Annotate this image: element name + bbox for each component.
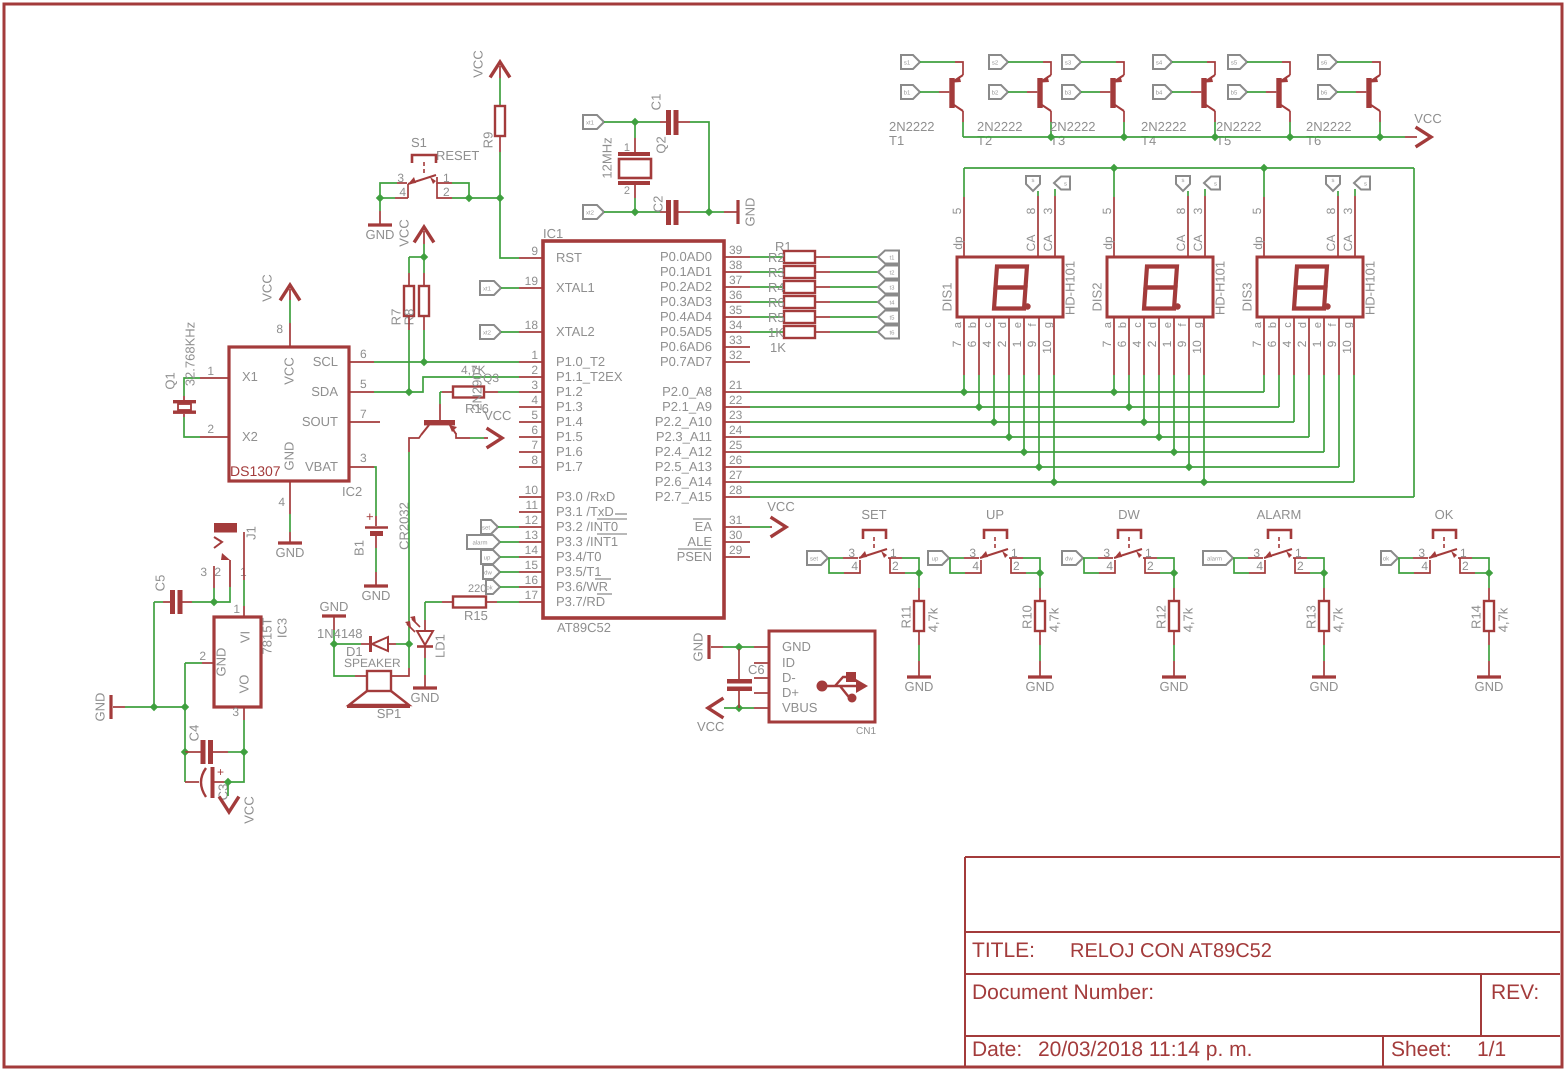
DIS3 seven-segment digit 8. <box>1294 267 1327 309</box>
wire R12 to ground <box>1173 631 1175 645</box>
DIS2 pin segment c <box>1143 317 1145 375</box>
power VCC arrow (top, above R9) <box>491 62 509 76</box>
svg-text:R15: R15 <box>464 608 488 623</box>
tag OK net on P3.6 <box>486 580 500 594</box>
svg-text:P0.2AD2: P0.2AD2 <box>660 279 712 294</box>
node UP junction <box>1036 569 1044 577</box>
wire Q3 collector down to speaker node <box>409 435 421 452</box>
svg-text:P1.1_T2EX: P1.1_T2EX <box>556 369 623 384</box>
svg-text:P1.2: P1.2 <box>556 384 583 399</box>
svg-text:2N2222: 2N2222 <box>977 119 1023 134</box>
svg-text:P2.5_A13: P2.5_A13 <box>655 459 712 474</box>
svg-text:5: 5 <box>950 207 964 214</box>
DIS1 pin segment b <box>978 317 980 375</box>
svg-text:4: 4 <box>1280 340 1294 347</box>
wire SET pin1/2 loop <box>888 557 902 559</box>
resistor R12 4,7k <box>1173 573 1175 588</box>
wire tag to C2 <box>604 211 635 213</box>
pin 2 GND of IC3 <box>202 662 214 664</box>
svg-text:2: 2 <box>1013 559 1020 573</box>
wire tag to C1/Q2 <box>604 121 635 123</box>
svg-text:Q2: Q2 <box>654 136 669 153</box>
svg-text:9: 9 <box>1025 340 1039 347</box>
DIS3 pin segment g <box>1353 317 1355 375</box>
svg-text:5: 5 <box>1100 207 1114 214</box>
svg-text:d: d <box>1297 322 1309 328</box>
crystal Q2 12MHz <box>634 138 636 152</box>
DIS1 pin segment a <box>963 317 965 375</box>
op IC2 DS1307 box <box>229 347 349 481</box>
wire DIS3 segment b to bus <box>1278 375 1280 407</box>
wire D1 anode to node <box>388 643 396 645</box>
svg-text:+: + <box>366 509 374 524</box>
wire DIS2 segment d to bus <box>1158 375 1160 437</box>
svg-text:GND: GND <box>93 693 108 722</box>
svg-text:26: 26 <box>729 453 743 467</box>
ground rail left <box>125 706 185 708</box>
svg-text:1: 1 <box>531 348 538 362</box>
wire DIS1 segment b to bus <box>978 375 980 407</box>
DIS1 pin segment g <box>1053 317 1055 375</box>
node DW junction <box>1170 569 1178 577</box>
svg-text:15: 15 <box>525 558 539 572</box>
svg-text:1: 1 <box>233 602 240 616</box>
svg-text:R4: R4 <box>768 280 785 295</box>
resistor R16 <box>453 387 484 398</box>
svg-text:1: 1 <box>1310 340 1324 347</box>
svg-text:2: 2 <box>1295 340 1309 347</box>
svg-text:P0.0AD0: P0.0AD0 <box>660 249 712 264</box>
svg-text:2: 2 <box>624 185 630 197</box>
DIS2 pin 5 dp <box>1113 197 1115 257</box>
wire C5 left down to gnd rail <box>153 602 155 707</box>
pin 4 P1.3 <box>519 406 543 408</box>
tag T1 base net <box>901 85 920 99</box>
svg-text:s2: s2 <box>992 60 999 67</box>
svg-text:P3.5/T1: P3.5/T1 <box>556 564 602 579</box>
tag T3 collector-drive net <box>1062 55 1081 69</box>
tag T4 base net <box>1153 85 1172 99</box>
wire DW pin1/2 loop <box>1143 557 1157 559</box>
svg-text:s: s <box>1214 182 1217 188</box>
svg-text:3: 3 <box>1341 207 1355 214</box>
svg-text:CA: CA <box>1324 235 1338 252</box>
svg-text:4: 4 <box>980 340 994 347</box>
op IC1 AT89C52 box <box>543 241 724 618</box>
svg-text:xt2: xt2 <box>483 330 492 337</box>
svg-text:a: a <box>1102 321 1114 328</box>
svg-text:d: d <box>1147 322 1159 328</box>
wire tag to T4 base <box>1172 91 1191 93</box>
wire VCC to R9 <box>499 66 501 78</box>
svg-text:OK: OK <box>1435 507 1454 522</box>
svg-text:R2: R2 <box>768 250 785 265</box>
svg-text:C4: C4 <box>187 725 202 742</box>
svg-text:dw: dw <box>484 570 492 577</box>
wire P2.3 bus line <box>750 436 1309 438</box>
svg-text:P2.4_A12: P2.4_A12 <box>655 444 712 459</box>
svg-text:C5: C5 <box>153 575 168 592</box>
pin 37 P0.2AD2 <box>724 286 750 288</box>
svg-text:4,7k: 4,7k <box>926 607 941 632</box>
svg-text:4: 4 <box>1106 559 1113 573</box>
DIS1 pin 5 dp <box>963 197 965 257</box>
resistor R11 4,7k <box>918 573 920 588</box>
wire DIS2 segment a to bus <box>1113 375 1115 392</box>
svg-text:36: 36 <box>729 288 743 302</box>
svg-text:a: a <box>1252 321 1264 328</box>
svg-text:12MHz: 12MHz <box>600 137 615 178</box>
svg-text:c: c <box>1132 322 1144 328</box>
svg-text:4: 4 <box>1256 559 1263 573</box>
tag SET net <box>807 551 828 565</box>
svg-text:XTAL1: XTAL1 <box>556 280 595 295</box>
wire R8 to SCL <box>423 316 425 330</box>
tag ALARM net on P3.3 <box>467 535 500 549</box>
pin 10 P3.0 /RxD <box>519 496 543 498</box>
wire J1 pin1 to IC3 VI <box>243 532 245 580</box>
DIS3 pin segment e <box>1323 317 1325 375</box>
wire R11 to ground <box>918 631 920 645</box>
display DIS2 HD-H101 box <box>1107 257 1213 317</box>
svg-text:2: 2 <box>199 649 206 663</box>
svg-text:xt1: xt1 <box>483 286 492 293</box>
tag UP net on P3.4 <box>481 550 500 564</box>
wire tag to T3 base <box>1081 91 1100 93</box>
svg-text:2N2907: 2N2907 <box>470 365 485 411</box>
svg-text:P2.2_A10: P2.2_A10 <box>655 414 712 429</box>
wire DIS1 segment d to bus <box>1008 375 1010 437</box>
pin 2 X2 <box>200 436 229 438</box>
tag P0 net 5 <box>878 311 899 324</box>
svg-text:P0.4AD4: P0.4AD4 <box>660 309 712 324</box>
pin 11 TxD trailing overbar <box>615 513 627 515</box>
svg-text:P1.5: P1.5 <box>556 429 583 444</box>
svg-text:34: 34 <box>729 318 743 332</box>
svg-text:3: 3 <box>1041 207 1055 214</box>
svg-text:2N2222: 2N2222 <box>1216 119 1262 134</box>
capacitor C1 <box>635 121 660 123</box>
svg-text:IC3: IC3 <box>275 618 290 638</box>
pin 33 P0.6AD6 <box>724 346 750 348</box>
svg-text:e: e <box>1162 322 1174 328</box>
svg-text:GND: GND <box>905 679 934 694</box>
svg-text:C1: C1 <box>649 94 664 111</box>
wire DIS2 dp to rail <box>1113 168 1115 197</box>
svg-text:b3: b3 <box>1065 90 1072 97</box>
svg-text:SOUT: SOUT <box>302 414 338 429</box>
svg-text:RST: RST <box>556 250 582 265</box>
svg-text:t4: t4 <box>889 300 895 307</box>
svg-text:2: 2 <box>892 559 899 573</box>
node ALARM junction <box>1320 569 1328 577</box>
wire tag to T5 base <box>1247 91 1266 93</box>
pin 19 XTAL1 <box>519 287 543 289</box>
node SET junction <box>915 569 923 577</box>
tag T1 collector-drive net <box>901 55 920 69</box>
wire DIS1 segment e to bus <box>1023 375 1025 452</box>
DIS1 pin 3 CA <box>1054 196 1056 257</box>
svg-text:GND: GND <box>1310 679 1339 694</box>
wire speaker right pin <box>408 644 410 668</box>
wire R16 to P1.2 <box>484 391 498 393</box>
node C2/GND junction <box>705 208 713 216</box>
pin 17 P3.7/RD <box>519 601 543 603</box>
svg-text:10: 10 <box>1340 340 1354 354</box>
svg-text:1: 1 <box>624 142 630 154</box>
wire tag to T4 top <box>1172 61 1207 63</box>
svg-text:4: 4 <box>278 495 285 509</box>
DIS1 pin segment d <box>1008 317 1010 375</box>
DIS2 seven-segment digit 8. <box>1144 267 1177 309</box>
svg-text:VBAT: VBAT <box>305 459 338 474</box>
svg-text:set: set <box>810 557 818 563</box>
DIS1 pin segment e <box>1023 317 1025 375</box>
wire P2.5 bus line <box>750 466 1339 468</box>
tag T5 collector-drive net <box>1228 55 1247 69</box>
wire gnd rail down to C4 <box>184 707 186 752</box>
svg-text:d: d <box>997 322 1009 328</box>
svg-text:EA: EA <box>695 519 713 534</box>
svg-text:VCC: VCC <box>697 719 724 734</box>
svg-text:s6: s6 <box>1321 60 1328 67</box>
svg-text:b5: b5 <box>1231 90 1238 97</box>
pin D- stub <box>754 677 769 679</box>
svg-text:e: e <box>1012 322 1024 328</box>
node R7/R8 VCC junction <box>409 256 424 258</box>
svg-text:+: + <box>217 765 224 779</box>
svg-text:Date:: Date: <box>972 1038 1022 1061</box>
svg-text:AT89C52: AT89C52 <box>557 620 611 635</box>
svg-text:2: 2 <box>1462 559 1469 573</box>
svg-text:B1: B1 <box>352 540 367 556</box>
svg-text:220: 220 <box>468 583 486 595</box>
power VCC arrow left (VBUS) <box>708 699 722 717</box>
DIS2 pin segment f <box>1188 317 1190 375</box>
svg-text:g: g <box>1342 322 1354 328</box>
wire Q2 pin1 to node <box>634 122 636 138</box>
transistor Q3 2N2907 <box>439 404 441 420</box>
svg-text:dw: dw <box>1065 556 1073 563</box>
wire S1 to R9 junction <box>469 197 500 199</box>
pin 25 P2.4_A12 <box>724 451 750 453</box>
svg-text:DW: DW <box>1118 507 1140 522</box>
wire speaker left pin <box>334 644 355 676</box>
svg-text:4: 4 <box>399 185 406 199</box>
node J1/C5 junction <box>210 598 218 606</box>
svg-text:VCC: VCC <box>260 274 275 301</box>
transistor T5 2N2222 <box>1276 78 1281 108</box>
svg-text:13: 13 <box>525 528 539 542</box>
node S1 junctions <box>376 194 384 202</box>
svg-text:P3.1 /TxD: P3.1 /TxD <box>556 504 614 519</box>
svg-text:P3.3 /INT1: P3.3 /INT1 <box>556 534 618 549</box>
svg-text:REV:: REV: <box>1491 981 1539 1004</box>
DIS1 seven-segment digit 8. <box>994 267 1027 309</box>
pin 28 P2.7_A15 <box>724 496 750 498</box>
DIS3 pin segment a <box>1263 317 1265 375</box>
power VCC arrow right of T6 <box>1417 128 1431 146</box>
wire P2.2 bus line <box>750 421 1294 423</box>
svg-text:T6: T6 <box>1306 133 1321 148</box>
wire DIS3 segment c to bus <box>1293 375 1295 422</box>
svg-text:2N2222: 2N2222 <box>889 119 935 134</box>
tag T3 base net <box>1062 85 1081 99</box>
node C4 left junction <box>181 748 189 756</box>
svg-text:2: 2 <box>214 565 221 579</box>
svg-text:R9: R9 <box>481 132 496 149</box>
node crystal top junction <box>631 118 639 126</box>
svg-text:VCC: VCC <box>767 499 794 514</box>
tag CA net a <box>1176 176 1190 191</box>
svg-text:s1: s1 <box>904 60 911 67</box>
pin 12 P3.2 /INT0 <box>519 526 543 528</box>
svg-text:22: 22 <box>729 393 743 407</box>
pin 15 P3.5/T1 <box>519 571 543 573</box>
DIS1 pin segment f <box>1038 317 1040 375</box>
resistor R9 <box>495 106 505 136</box>
wire DIS1 segment f to bus <box>1038 375 1040 467</box>
svg-text:5: 5 <box>1250 207 1264 214</box>
svg-text:6: 6 <box>1265 340 1279 347</box>
svg-text:ALARM: ALARM <box>1257 507 1302 522</box>
svg-text:Q3: Q3 <box>483 371 499 385</box>
wire DIS1 segment a to bus <box>963 375 965 392</box>
tag ALARM net <box>1203 551 1233 565</box>
svg-text:g: g <box>1042 322 1054 328</box>
svg-text:P0.6AD6: P0.6AD6 <box>660 339 712 354</box>
svg-text:X2: X2 <box>242 429 258 444</box>
svg-text:VCC: VCC <box>397 219 412 246</box>
pin 6 P1.5 <box>519 436 543 438</box>
svg-text:X1: X1 <box>242 369 258 384</box>
svg-text:3: 3 <box>360 451 367 465</box>
svg-text:S1: S1 <box>411 135 427 150</box>
wire T4 emitter to VCC rail <box>1214 111 1216 122</box>
svg-text:CA: CA <box>1191 235 1205 252</box>
pin GND of CN1 <box>754 646 769 648</box>
svg-text:HD-H101: HD-H101 <box>1063 261 1078 315</box>
tag P0 net 6 <box>878 326 899 339</box>
svg-text:DIS2: DIS2 <box>1090 283 1105 312</box>
power VCC arrow on EA pin 31 <box>750 526 770 528</box>
svg-text:e: e <box>1312 322 1324 328</box>
pin 11 P3.1 /TxD <box>519 511 543 513</box>
svg-text:2N2222: 2N2222 <box>1050 119 1096 134</box>
svg-text:GND: GND <box>1475 679 1504 694</box>
pin ID stub <box>754 662 769 664</box>
DIS2 pin segment b <box>1128 317 1130 375</box>
capacitor C3 electrolytic <box>201 768 206 797</box>
pin 7 SOUT stub <box>349 421 380 423</box>
svg-text:1: 1 <box>1160 340 1174 347</box>
wire DIS3 segment f to bus <box>1338 375 1340 467</box>
node SCL/R8 junction <box>420 358 428 366</box>
tag P0 net 1 <box>878 251 899 264</box>
svg-text:R13: R13 <box>1304 605 1319 629</box>
svg-text:GND: GND <box>411 690 440 705</box>
wire VCC to pin 8 <box>289 289 291 300</box>
wire OK pin3/4 loop <box>1398 557 1413 559</box>
svg-text:c: c <box>982 322 994 328</box>
wire Q2 pin2 to node <box>634 198 636 212</box>
svg-text:12: 12 <box>525 513 539 527</box>
wire DIS3 segment g to bus <box>1353 375 1355 482</box>
svg-text:11: 11 <box>526 498 539 512</box>
ground left of CN1 (rotated) <box>711 646 723 648</box>
svg-text:T4: T4 <box>1141 133 1156 148</box>
svg-text:9: 9 <box>1325 340 1339 347</box>
svg-text:21: 21 <box>729 378 743 392</box>
svg-text:7: 7 <box>531 438 538 452</box>
svg-text:2: 2 <box>1297 559 1304 573</box>
svg-text:RESET: RESET <box>436 148 479 163</box>
svg-text:xt1: xt1 <box>586 120 595 127</box>
svg-text:a: a <box>952 321 964 328</box>
wire VCC to R7 R8 <box>423 231 425 244</box>
svg-text:P2.1_A9: P2.1_A9 <box>662 399 712 414</box>
svg-text:ID: ID <box>782 655 795 670</box>
node C6 top junction <box>735 643 743 651</box>
ground under DS1307 <box>289 514 291 532</box>
svg-text:4: 4 <box>1130 340 1144 347</box>
svg-text:VI: VI <box>238 631 253 643</box>
svg-text:J1: J1 <box>244 526 259 540</box>
svg-text:R10: R10 <box>1020 605 1035 629</box>
wire P2.6 bus line <box>750 481 1354 483</box>
tag P0 net 3 <box>878 281 899 294</box>
svg-text:24: 24 <box>729 423 743 437</box>
ground under R11 <box>907 675 931 678</box>
svg-text:P1.3: P1.3 <box>556 399 583 414</box>
svg-text:RELOJ CON AT89C52: RELOJ CON AT89C52 <box>1070 940 1272 962</box>
svg-text:GND: GND <box>214 648 229 677</box>
wire DIS1 segment g to bus <box>1053 375 1055 482</box>
svg-text:s: s <box>1182 178 1185 184</box>
pin 9 RST <box>519 257 543 259</box>
svg-text:30: 30 <box>729 528 743 542</box>
svg-text:up: up <box>932 557 939 563</box>
svg-text:1: 1 <box>207 364 214 378</box>
svg-text:37: 37 <box>729 273 743 287</box>
svg-text:SCL: SCL <box>313 354 338 369</box>
svg-text:t6: t6 <box>889 330 895 337</box>
svg-text:7815T: 7815T <box>260 618 275 655</box>
svg-text:3: 3 <box>232 705 239 719</box>
svg-text:6: 6 <box>1115 340 1129 347</box>
capacitor C6 <box>738 649 740 679</box>
pin VBUS of CN1 <box>754 707 769 709</box>
pin 24 P2.3_A11 <box>724 436 750 438</box>
resistor R1 element R5 1K <box>750 316 784 318</box>
connector J1 power jack <box>214 523 237 533</box>
svg-text:3: 3 <box>1191 207 1205 214</box>
wire X2 to crystal Q1 <box>184 417 200 437</box>
svg-text:P1.6: P1.6 <box>556 444 583 459</box>
svg-text:32.768KHz: 32.768KHz <box>183 322 198 386</box>
wire RST net from S1/R9 <box>500 198 519 258</box>
op IC3 7815T regulator box <box>214 617 261 707</box>
pin 35 P0.4AD4 <box>724 316 750 318</box>
svg-text:VCC: VCC <box>471 50 486 77</box>
DIS3 pin 8 CA <box>1337 196 1339 257</box>
svg-text:s4: s4 <box>1156 60 1163 67</box>
svg-text:C2: C2 <box>651 196 666 213</box>
svg-text:b4: b4 <box>1156 90 1163 97</box>
svg-text:14: 14 <box>525 543 539 557</box>
wire transistor common rail to VCC <box>963 136 1405 138</box>
wire SET pin3/4 loop <box>828 557 843 559</box>
